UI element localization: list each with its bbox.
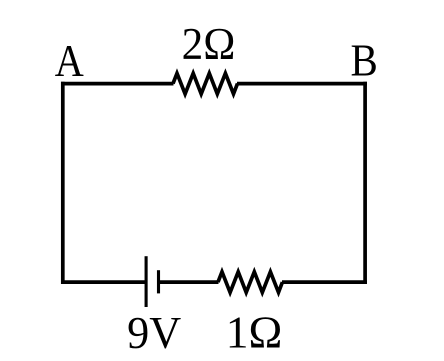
wire top right segment [237,82,367,86]
svg-text:A: A [55,37,84,87]
wire bottom middle segment [159,280,219,284]
wire bottom right segment [282,280,367,284]
wire right vertical [363,82,367,284]
svg-text:2Ω: 2Ω [182,19,236,69]
resistor R1 zigzag (2Ω) [173,73,238,94]
wire left vertical [61,82,65,284]
battery short plate (negative) [157,270,160,293]
wire top left segment [61,82,174,86]
resistor R2 zigzag (1Ω) [218,272,282,293]
svg-text:1Ω: 1Ω [226,308,283,358]
svg-text:9V: 9V [127,308,181,358]
svg-text:B: B [351,37,378,86]
battery long plate (positive) [145,256,148,307]
wire bottom left segment [61,280,146,284]
